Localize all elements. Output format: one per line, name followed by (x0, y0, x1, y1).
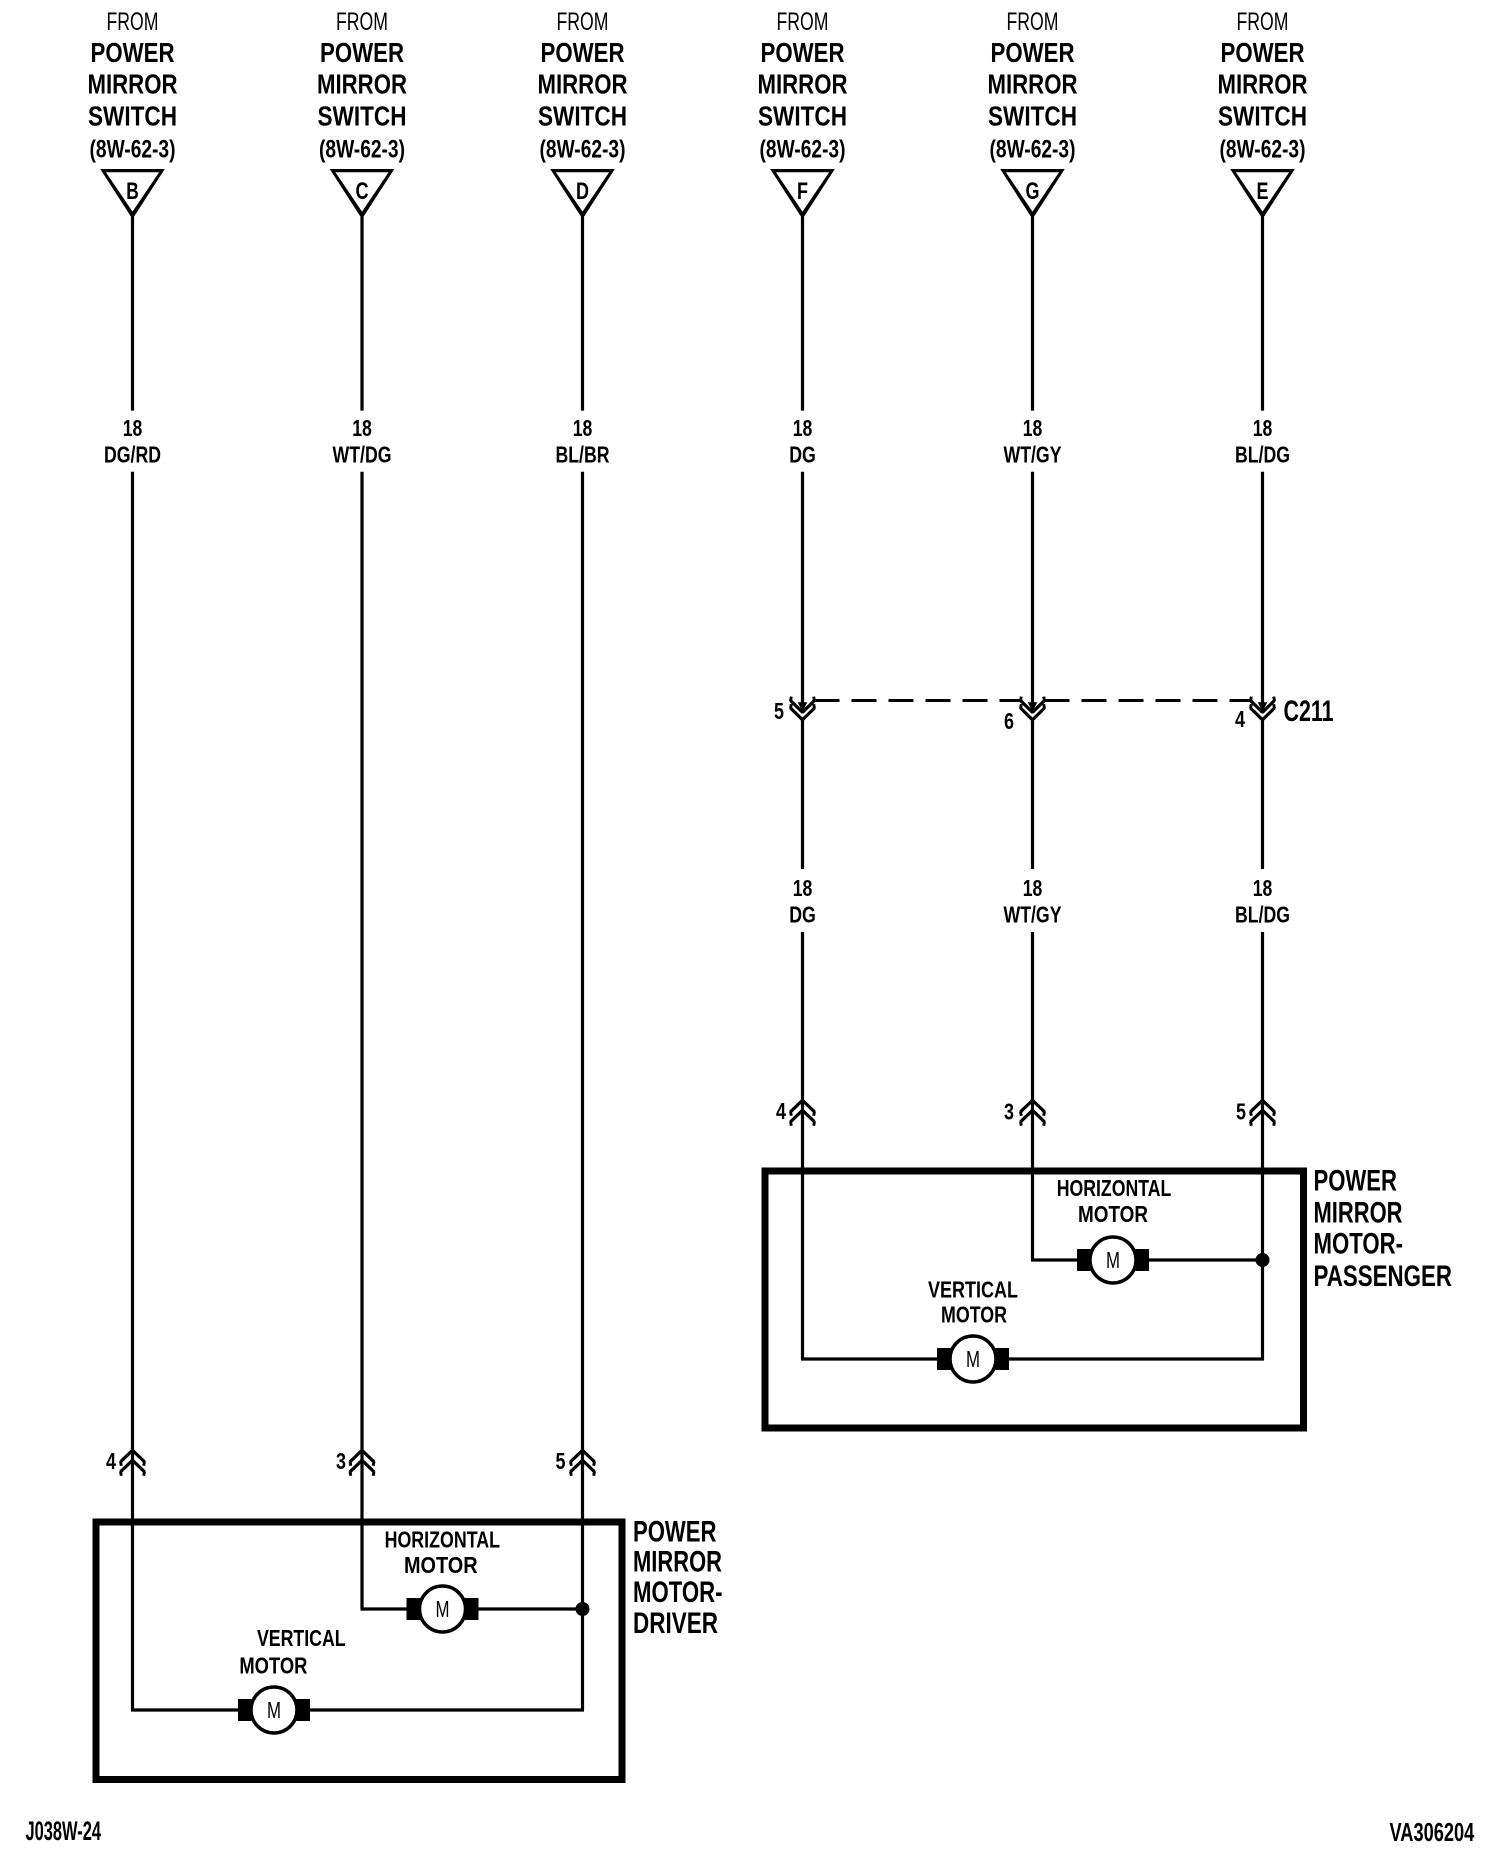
svg-text:MIRROR: MIRROR (758, 69, 848, 100)
wire C circuit 18 WT/DG down to driver horizontal motor (360, 472, 363, 1609)
svg-text:5: 5 (774, 698, 784, 724)
svg-text:MOTOR: MOTOR (404, 1552, 478, 1578)
svg-text:POWER: POWER (991, 37, 1075, 68)
svg-text:VERTICAL: VERTICAL (257, 1625, 346, 1651)
svg-text:C211: C211 (1284, 695, 1334, 728)
wire E circuit 18 BL/DG down through junction to passenger vertical motor level (1261, 932, 1264, 1359)
wire label 18 DG (789, 415, 816, 468)
svg-text:(8W-62-3): (8W-62-3) (760, 136, 846, 164)
component label POWER MIRROR MOTOR-PASSENGER (1314, 1165, 1453, 1294)
svg-text:5: 5 (1236, 1099, 1246, 1125)
component box POWER MIRROR MOTOR-DRIVER (96, 1522, 622, 1780)
component box POWER MIRROR MOTOR-PASSENGER (765, 1171, 1304, 1428)
svg-text:FROM: FROM (336, 8, 388, 36)
wire from connector D down to gauge label (581, 217, 584, 411)
wire inside driver box: pin4 to vertical motor left (131, 1708, 239, 1711)
wire inside passenger box: pin3 to horizontal motor left (1031, 1258, 1078, 1261)
wire inside driver box: horizontal motor right to junction (478, 1607, 583, 1610)
connector triangle G from power mirror switch (1000, 169, 1065, 219)
svg-text:FROM: FROM (1237, 8, 1289, 36)
svg-text:(8W-62-3): (8W-62-3) (1220, 136, 1306, 164)
svg-text:POWER: POWER (1314, 1165, 1398, 1198)
wire from connector F down to gauge label (801, 217, 804, 411)
svg-text:POWER: POWER (541, 37, 625, 68)
wire label 18 WT/GY (1004, 875, 1062, 928)
svg-text:18: 18 (1023, 875, 1043, 901)
svg-text:(8W-62-3): (8W-62-3) (540, 136, 626, 164)
in-line connector C211 pin 5 (double chevron) (791, 697, 815, 720)
svg-text:DRIVER: DRIVER (633, 1607, 718, 1640)
wire G circuit 18 WT/GY down to passenger horizontal motor level (1031, 932, 1034, 1260)
wire D circuit 18 BL/BR down through junction to driver vertical motor level (581, 472, 584, 1710)
wire label 18 BL/DG (1235, 415, 1290, 468)
svg-text:6: 6 (1004, 708, 1014, 734)
svg-text:FROM: FROM (557, 8, 609, 36)
svg-text:4: 4 (1235, 706, 1245, 732)
svg-text:VA306204: VA306204 (1390, 1819, 1475, 1847)
svg-text:POWER: POWER (633, 1515, 717, 1548)
passenger mirror connector pin 3 (double chevron) (1021, 1100, 1045, 1125)
wire segment down to connector C211 (1031, 472, 1034, 704)
wire label 18 WT/GY (1004, 415, 1062, 468)
svg-text:MOTOR-: MOTOR- (633, 1576, 723, 1609)
svg-text:J038W-24: J038W-24 (26, 1816, 102, 1846)
svg-text:M: M (966, 1346, 980, 1372)
junction node on passenger E wire (1256, 1253, 1270, 1267)
driver horizontal motor: DC motor symbol (circle with M and brush terminals) (407, 1586, 479, 1632)
svg-text:(8W-62-3): (8W-62-3) (319, 136, 405, 164)
svg-text:MIRROR: MIRROR (1314, 1197, 1403, 1230)
svg-text:POWER: POWER (320, 37, 404, 68)
svg-text:VERTICAL: VERTICAL (928, 1277, 1018, 1303)
junction node on driver D wire (576, 1602, 590, 1616)
wire from connector C down to gauge label (360, 217, 363, 411)
svg-text:FROM: FROM (107, 8, 159, 36)
label HORIZONTAL MOTOR (driver) (385, 1527, 500, 1578)
wire from connector G down to gauge label (1031, 217, 1034, 411)
svg-text:MIRROR: MIRROR (317, 69, 407, 100)
label FROM POWER MIRROR SWITCH (8W-62-3) for connector D (538, 8, 628, 164)
svg-text:POWER: POWER (1221, 37, 1305, 68)
label FROM POWER MIRROR SWITCH (8W-62-3) for connector B (88, 8, 178, 164)
dashed connector line C211 between pins (815, 699, 1251, 702)
svg-text:M: M (1106, 1247, 1120, 1273)
svg-text:SWITCH: SWITCH (88, 101, 177, 132)
wire from connector B down to gauge label (131, 217, 134, 411)
passenger mirror connector pin 4 (double chevron) (791, 1100, 815, 1125)
svg-text:18: 18 (573, 415, 593, 441)
svg-text:M: M (267, 1697, 281, 1723)
in-line connector C211 pin 6 (double chevron) (1021, 697, 1045, 720)
svg-text:3: 3 (1004, 1099, 1014, 1125)
connector triangle E from power mirror switch (1230, 169, 1295, 219)
svg-text:MIRROR: MIRROR (88, 69, 178, 100)
driver mirror connector pin 5 (double chevron) (571, 1450, 595, 1475)
svg-text:MOTOR: MOTOR (239, 1653, 307, 1679)
svg-text:BL/DG: BL/DG (1235, 442, 1290, 468)
svg-text:B: B (126, 178, 139, 205)
label FROM POWER MIRROR SWITCH (8W-62-3) for connector E (1218, 8, 1308, 164)
svg-text:DG/RD: DG/RD (104, 442, 161, 468)
svg-text:4: 4 (776, 1098, 786, 1124)
label FROM POWER MIRROR SWITCH (8W-62-3) for connector G (988, 8, 1078, 164)
driver vertical motor: DC motor symbol (circle with M and brush terminals) (238, 1687, 310, 1733)
svg-text:BL/BR: BL/BR (556, 442, 610, 468)
svg-text:SWITCH: SWITCH (1218, 101, 1307, 132)
svg-text:M: M (436, 1596, 450, 1622)
svg-text:18: 18 (793, 875, 813, 901)
wire inside driver box: pin3 to horizontal motor left (361, 1607, 407, 1610)
svg-text:PASSENGER: PASSENGER (1314, 1260, 1453, 1293)
svg-text:(8W-62-3): (8W-62-3) (990, 136, 1076, 164)
svg-text:SWITCH: SWITCH (538, 101, 627, 132)
svg-text:18: 18 (352, 415, 372, 441)
svg-text:18: 18 (1023, 415, 1043, 441)
svg-text:HORIZONTAL: HORIZONTAL (385, 1527, 500, 1553)
wire inside passenger box: horizontal motor right to junction (1149, 1258, 1263, 1261)
label VERTICAL MOTOR (driver) (239, 1625, 345, 1679)
svg-text:MOTOR: MOTOR (941, 1302, 1007, 1328)
label HORIZONTAL MOTOR (passenger) (1057, 1175, 1172, 1227)
svg-text:SWITCH: SWITCH (758, 101, 847, 132)
svg-text:E: E (1257, 178, 1269, 205)
wire inside passenger box: pin4 to vertical motor left (801, 1357, 938, 1360)
svg-text:FROM: FROM (777, 8, 829, 36)
label FROM POWER MIRROR SWITCH (8W-62-3) for connector C (317, 8, 407, 164)
svg-text:3: 3 (336, 1448, 346, 1474)
svg-text:BL/DG: BL/DG (1235, 902, 1290, 928)
svg-text:MIRROR: MIRROR (538, 69, 628, 100)
label VERTICAL MOTOR (passenger) (928, 1277, 1018, 1328)
svg-text:POWER: POWER (91, 37, 175, 68)
wire label 18 WT/DG (333, 415, 392, 468)
wire B circuit 18 DG/RD down to driver vertical motor (131, 472, 134, 1710)
svg-text:HORIZONTAL: HORIZONTAL (1057, 1175, 1172, 1201)
passenger vertical motor: DC motor symbol (circle with M and brush terminals) (937, 1336, 1009, 1382)
connector triangle C from power mirror switch (330, 169, 395, 219)
svg-text:DG: DG (789, 442, 816, 468)
svg-text:18: 18 (793, 415, 813, 441)
passenger mirror connector pin 5 (double chevron) (1251, 1100, 1275, 1125)
component label POWER MIRROR MOTOR-DRIVER (633, 1515, 723, 1640)
wire inside passenger box: vertical motor right to pin5 wire (1009, 1357, 1265, 1360)
wire label 18 BL/BR (556, 415, 610, 468)
wire segment from C211 to gauge label (801, 720, 804, 869)
wire segment down to connector C211 (1261, 472, 1264, 704)
wire segment from C211 to gauge label (1031, 720, 1034, 869)
svg-text:18: 18 (1253, 875, 1273, 901)
svg-text:C: C (356, 178, 369, 205)
wire F circuit 18 DG down to passenger vertical motor level (801, 932, 804, 1359)
svg-text:DG: DG (789, 902, 816, 928)
svg-text:18: 18 (123, 415, 143, 441)
svg-text:WT/GY: WT/GY (1004, 442, 1062, 468)
svg-text:WT/DG: WT/DG (333, 442, 392, 468)
svg-text:MIRROR: MIRROR (633, 1546, 722, 1579)
wire label 18 DG/RD (104, 415, 161, 468)
connector triangle F from power mirror switch (770, 169, 835, 219)
connector triangle B from power mirror switch (100, 169, 165, 219)
driver mirror connector pin 4 (double chevron) (121, 1450, 145, 1475)
passenger horizontal motor: DC motor symbol (circle with M and brush terminals) (1077, 1237, 1149, 1283)
svg-text:MOTOR: MOTOR (1078, 1201, 1148, 1227)
svg-text:SWITCH: SWITCH (988, 101, 1077, 132)
connector triangle D from power mirror switch (550, 169, 615, 219)
wire label 18 BL/DG (1235, 875, 1290, 928)
svg-text:SWITCH: SWITCH (318, 101, 407, 132)
wire segment from C211 to gauge label (1261, 720, 1264, 869)
driver mirror connector pin 3 (double chevron) (350, 1450, 374, 1475)
wire label 18 DG (789, 875, 816, 928)
svg-text:G: G (1026, 178, 1040, 205)
label FROM POWER MIRROR SWITCH (8W-62-3) for connector F (758, 8, 848, 164)
wire segment down to connector C211 (801, 472, 804, 704)
svg-text:MIRROR: MIRROR (988, 69, 1078, 100)
svg-text:D: D (576, 178, 589, 205)
svg-text:18: 18 (1253, 415, 1273, 441)
svg-text:WT/GY: WT/GY (1004, 902, 1062, 928)
svg-text:F: F (797, 178, 808, 205)
wire from connector E down to gauge label (1261, 217, 1264, 411)
svg-text:5: 5 (556, 1448, 566, 1474)
wire inside driver box: vertical motor right to pin5 wire (310, 1708, 585, 1711)
svg-text:(8W-62-3): (8W-62-3) (90, 136, 176, 164)
in-line connector C211 pin 4 (double chevron) (1251, 697, 1275, 720)
svg-text:MOTOR-: MOTOR- (1314, 1228, 1404, 1261)
svg-text:FROM: FROM (1007, 8, 1059, 36)
svg-text:MIRROR: MIRROR (1218, 69, 1308, 100)
svg-text:4: 4 (106, 1448, 116, 1474)
svg-text:POWER: POWER (761, 37, 845, 68)
